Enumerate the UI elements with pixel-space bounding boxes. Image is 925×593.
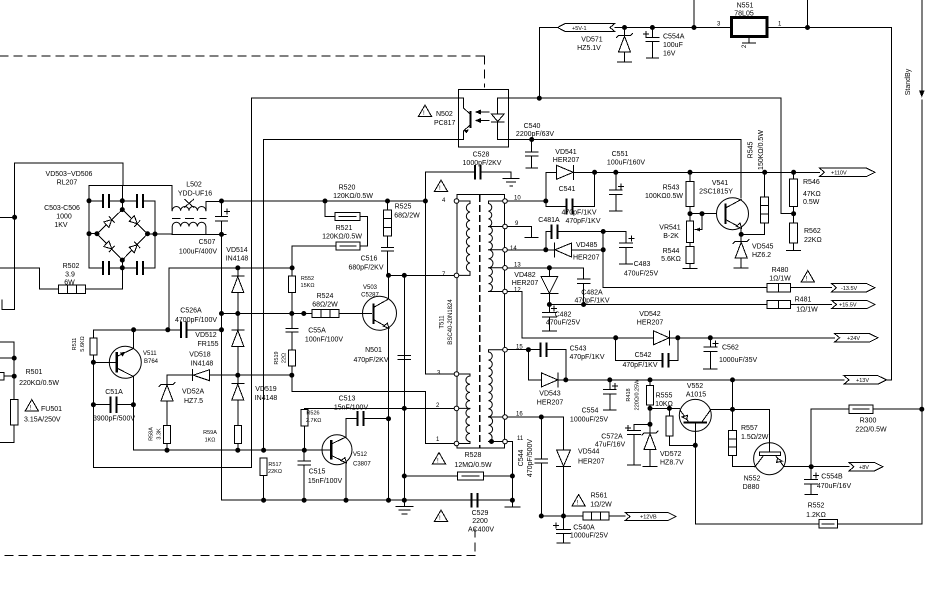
svg-text:1Ω/2W: 1Ω/2W: [590, 502, 612, 509]
svg-text:1.2KΩ: 1.2KΩ: [806, 512, 826, 519]
svg-text:470pF/1KV: 470pF/1KV: [565, 218, 600, 225]
label VD542: [637, 311, 664, 327]
capacitor C505 (bottom-left): [102, 261, 110, 275]
node base rail: [165, 448, 169, 452]
label C554: [570, 408, 608, 424]
wire pin12 to +24V rail: [507, 292, 834, 338]
svg-text:3.9: 3.9: [65, 272, 75, 279]
resistor R525: [387, 201, 389, 210]
diode VD518: [193, 370, 210, 381]
label R557: [741, 425, 769, 441]
transformer T511 secondary lower winding: [489, 350, 503, 442]
resistor R562: [790, 223, 798, 243]
label C51A: [93, 389, 135, 423]
node R501: [12, 356, 16, 360]
svg-text:C540: C540: [524, 123, 541, 130]
label R502 value: [63, 263, 80, 287]
svg-text:VD544: VD544: [578, 449, 600, 456]
wire hot ground rail: [222, 499, 513, 501]
capacitor C55A: [286, 314, 298, 351]
wire opto lower left: [264, 139, 459, 450]
wire choke bottom to C507: [172, 201, 226, 234]
diode VD485: [555, 243, 604, 257]
potentiometer VR541: [687, 221, 694, 243]
label R528: [454, 452, 492, 469]
svg-text:PC817: PC817: [434, 120, 456, 127]
svg-text:IN4148: IN4148: [226, 256, 249, 263]
capacitor C483 electrolytic: [620, 232, 635, 265]
svg-text:R481: R481: [795, 297, 812, 304]
wire emitter to R545: [741, 223, 765, 235]
svg-text:R519: R519: [274, 351, 280, 364]
svg-text:220KΩ/0.5W: 220KΩ/0.5W: [19, 380, 59, 387]
wire AC line 1 stub: [0, 163, 123, 310]
node +15.5 rail: [547, 303, 551, 307]
svg-text:22KΩ: 22KΩ: [804, 237, 822, 244]
svg-text:C507: C507: [199, 239, 216, 246]
svg-text:C544: C544: [518, 450, 525, 467]
label C542: [622, 352, 657, 369]
node VD543 out: [564, 378, 568, 382]
svg-text:YDD-UF16: YDD-UF16: [178, 191, 212, 198]
label R480: [769, 267, 791, 283]
wire V541 base: [690, 213, 717, 215]
node pin11 vertical: [510, 474, 514, 478]
label C529: [468, 510, 494, 534]
wire pin11 vertical: [505, 442, 520, 508]
ground hot: [396, 507, 413, 514]
label VD571: [577, 37, 603, 53]
svg-text:-13.5V: -13.5V: [841, 286, 858, 292]
svg-text:T511: T511: [440, 315, 446, 329]
arrow V511 emitter: [120, 352, 126, 357]
arrow V552 emitter: [682, 415, 687, 419]
capacitor C481A: [546, 231, 626, 250]
svg-text:R528: R528: [465, 452, 482, 459]
svg-text:47KΩ: 47KΩ: [803, 191, 821, 198]
wire V511 collector rail: [93, 329, 221, 331]
label C554A: [663, 34, 685, 58]
capacitor C554A: [644, 28, 660, 59]
svg-text:C515: C515: [309, 469, 326, 476]
svg-text:10KΩ: 10KΩ: [655, 401, 673, 408]
svg-text:4700pF/100V: 4700pF/100V: [175, 317, 217, 324]
capacitor C51A: [93, 362, 133, 467]
wire N552 base: [733, 409, 770, 451]
svg-text:C542: C542: [635, 352, 652, 359]
transistor N552: [754, 443, 786, 475]
transformer T511 primary lower winding: [459, 374, 470, 444]
node R546 bottom: [792, 212, 796, 216]
svg-text:StandBy: StandBy: [905, 68, 912, 95]
transistor V541: [717, 198, 749, 230]
label VD52A: [182, 389, 205, 406]
svg-text:IN4148: IN4148: [191, 361, 214, 368]
wire -13.5V rail: [603, 250, 831, 288]
label R501: [19, 369, 59, 387]
transformer T511 box: [457, 195, 504, 448]
wire R300 rail: [811, 409, 922, 467]
warning triangle transformer top: [435, 180, 448, 191]
svg-text:C554A: C554A: [663, 34, 685, 41]
resistor R546: [790, 179, 798, 207]
node V541 emitter: [739, 232, 743, 236]
node pin15: [526, 348, 530, 352]
label C516: [348, 256, 383, 272]
wire bridge top edge to choke: [89, 186, 172, 211]
label R561: [590, 493, 612, 509]
resistor R418: [647, 386, 654, 406]
svg-text:1000pF/2KV: 1000pF/2KV: [463, 160, 502, 167]
node pin16 wire: [539, 415, 543, 419]
node R517 bottom: [262, 498, 266, 502]
svg-text:C3807: C3807: [353, 462, 371, 468]
resistor R517: [260, 458, 267, 476]
svg-text:3.3K: 3.3K: [157, 428, 163, 440]
svg-text:HER207: HER207: [637, 320, 664, 327]
diode VD514: [232, 268, 244, 314]
svg-text:R552: R552: [808, 503, 825, 510]
svg-text:470uF/25V: 470uF/25V: [546, 320, 581, 327]
diode VD512: [232, 314, 244, 376]
resistor R552 (1.2K): [819, 520, 838, 528]
label R59A: [203, 430, 217, 444]
svg-text:680pF/2KV: 680pF/2KV: [348, 265, 383, 272]
N551 pin labels: [717, 22, 782, 49]
svg-text:C483: C483: [634, 261, 651, 268]
capacitor C529: [471, 493, 479, 508]
wire AC line 2 to R502: [0, 268, 122, 289]
svg-text:V512: V512: [353, 452, 368, 458]
svg-text:47uF/16V: 47uF/16V: [595, 442, 626, 449]
dashed isolation boundary top: [0, 56, 484, 87]
svg-text:VD519: VD519: [255, 386, 277, 393]
svg-text:+15.5V: +15.5V: [839, 303, 857, 309]
net flag +15.5V: [832, 300, 876, 308]
label T511 rotated: [440, 299, 455, 345]
transformer T511 secondary upper winding: [489, 201, 503, 292]
arrow V541 emitter: [736, 223, 741, 228]
svg-text:VD571: VD571: [581, 37, 603, 44]
label R552 15K: [301, 276, 315, 289]
node +5V rail: [623, 26, 627, 30]
svg-text:15nF/100V: 15nF/100V: [308, 478, 343, 485]
capacitor C515: [298, 450, 311, 500]
node C481A right: [601, 230, 605, 234]
svg-text:R562: R562: [804, 228, 821, 235]
svg-text:VD512: VD512: [195, 332, 217, 339]
wire StandBy line with arrow: [921, 0, 923, 524]
resistor R502: [59, 285, 86, 293]
label C55A: [305, 328, 343, 344]
svg-text:+8V: +8V: [859, 465, 869, 471]
resistor R557: [729, 431, 737, 456]
node +110V rail: [593, 170, 597, 174]
wire pin13: [507, 267, 583, 269]
svg-text:470pF/1KV: 470pF/1KV: [569, 354, 604, 361]
node VD514 rail: [236, 266, 240, 270]
wire +110V rail: [595, 171, 820, 173]
svg-text:FR155: FR155: [197, 341, 218, 348]
wire ground vertical: [403, 275, 405, 506]
svg-text:470pF/1KV: 470pF/1KV: [622, 362, 657, 369]
svg-text:1000uF/25V: 1000uF/25V: [570, 417, 608, 424]
resistor R519: [288, 350, 295, 366]
node C507 top: [220, 199, 224, 203]
capacitor C541: [546, 172, 595, 206]
node R520 top: [323, 199, 327, 203]
svg-text:68Ω/2W: 68Ω/2W: [312, 302, 338, 309]
wire opto upper left: [251, 97, 458, 99]
label N551: [734, 3, 754, 18]
capacitor C526A: [180, 322, 188, 339]
svg-text:100uF/160V: 100uF/160V: [607, 160, 645, 167]
optocoupler N502 phototransistor: [458, 98, 470, 139]
resistor R561: [583, 512, 609, 520]
label V552: [686, 383, 706, 399]
svg-text:VD52A: VD52A: [182, 389, 205, 396]
diode VD505 (bottom-left arm): [104, 241, 115, 252]
resistor R59A: [234, 426, 241, 444]
resistor R521: [292, 246, 336, 268]
wire +5V riser: [539, 28, 557, 99]
warning triangle R528: [433, 453, 446, 464]
svg-text:N552: N552: [744, 476, 761, 483]
wire left lower stubs: [0, 342, 14, 443]
svg-text:R543: R543: [663, 185, 680, 192]
svg-text:22Ω/0.5W: 22Ω/0.5W: [855, 427, 887, 434]
svg-text:HER207: HER207: [578, 459, 605, 466]
svg-text:120KΩ/0.5W: 120KΩ/0.5W: [333, 193, 373, 200]
node pin14: [544, 248, 548, 252]
wire pin2: [304, 408, 454, 409]
label C540A: [570, 525, 608, 540]
label R481: [795, 297, 819, 314]
optocoupler N502 LED: [491, 98, 508, 139]
node VD512 lower rail: [236, 373, 240, 377]
label VD512: [195, 332, 218, 348]
svg-text:+110V: +110V: [831, 171, 847, 177]
capacitor C544: [535, 417, 548, 516]
label R526: [306, 411, 321, 425]
label VD541: [553, 149, 580, 164]
resistor R511: [90, 338, 97, 355]
wire collector riser: [732, 380, 734, 431]
wire opto top right to feedback: [508, 98, 793, 214]
pin number labels: [436, 196, 524, 444]
wire pin9 stub: [507, 227, 538, 238]
svg-text:C5287: C5287: [361, 293, 379, 299]
label R544: [661, 248, 681, 263]
svg-text:C51A: C51A: [105, 389, 123, 396]
svg-text:5.6KΩ: 5.6KΩ: [661, 256, 681, 263]
svg-text:120KΩ/0.5W: 120KΩ/0.5W: [322, 234, 362, 241]
svg-text:1000uF/35V: 1000uF/35V: [719, 357, 757, 364]
svg-text:C543: C543: [570, 346, 587, 353]
label R525: [394, 204, 420, 220]
svg-text:1KV: 1KV: [54, 222, 68, 229]
capacitor C528 and ground: [425, 172, 511, 178]
svg-text:220Ω/0.25W: 220Ω/0.25W: [635, 379, 641, 411]
svg-text:HER207: HER207: [512, 280, 539, 287]
pin circles left: [454, 199, 459, 446]
bridge rectifier VD503~VD506 box: [89, 186, 155, 268]
node VD485 out: [601, 248, 605, 252]
capacitor C540A electrolytic: [554, 516, 571, 543]
svg-text:R480: R480: [772, 267, 789, 274]
capacitor C572A electrolytic: [626, 424, 651, 465]
svg-text:A1015: A1015: [686, 392, 706, 399]
label C482: [546, 312, 581, 327]
node V511 base: [91, 360, 95, 364]
svg-text:2.7KΩ: 2.7KΩ: [306, 418, 321, 424]
node +12VB line: [539, 514, 543, 518]
node V503 collector: [387, 273, 391, 277]
diode VD541: [546, 165, 595, 179]
svg-text:470pF/1KV: 470pF/1KV: [561, 210, 596, 217]
N551 ground: [743, 37, 756, 43]
resistor R481: [767, 300, 791, 308]
node +24V rail: [614, 336, 618, 340]
resistor R501 (cut off at edge): [0, 372, 4, 379]
svg-text:VD542: VD542: [639, 311, 661, 318]
label VD545: [752, 244, 774, 260]
wire snubber vertical x425: [425, 172, 454, 374]
net flag +12VB: [625, 512, 676, 520]
svg-text:C562: C562: [722, 345, 739, 352]
node base tap: [700, 212, 704, 216]
arrow N552 emitter: [777, 458, 783, 462]
label VD482: [512, 272, 539, 287]
capacitor C554B electrolytic: [805, 467, 819, 495]
wire VD514 upper rail: [169, 268, 292, 330]
svg-text:100uF: 100uF: [663, 42, 683, 49]
svg-text:14: 14: [510, 246, 517, 252]
zener VD52A: [159, 375, 175, 425]
label R511 rotated: [72, 336, 86, 351]
diode VD542: [654, 331, 670, 345]
svg-text:VD482: VD482: [514, 272, 536, 279]
node R543 bottom: [688, 212, 692, 216]
svg-text:B764: B764: [144, 359, 159, 365]
capacitor C482 electrolytic: [543, 305, 557, 332]
capacitor C504 (top-right): [136, 194, 144, 208]
wire pin1 loop: [292, 375, 454, 443]
resistor R480: [767, 284, 791, 292]
svg-text:C554B: C554B: [821, 474, 843, 481]
label R521: [322, 225, 362, 241]
svg-text:R524: R524: [317, 293, 334, 300]
svg-text:1Ω/1W: 1Ω/1W: [796, 307, 818, 314]
resistor R520: [325, 201, 368, 246]
svg-text:R557: R557: [741, 425, 758, 432]
svg-text:C554: C554: [582, 408, 599, 415]
svg-text:150KΩ/0.5W: 150KΩ/0.5W: [758, 130, 765, 170]
wire +5V rail: [615, 0, 892, 380]
svg-text:+5V-1: +5V-1: [572, 26, 587, 32]
svg-text:AC400V: AC400V: [468, 527, 494, 534]
wire pin16: [507, 416, 563, 418]
capacitor C554 electrolytic: [604, 380, 618, 410]
wire opto bottom right / C540: [508, 140, 741, 199]
node B+ pin4: [423, 199, 427, 203]
svg-text:V511: V511: [143, 351, 157, 357]
transistor V503: [363, 296, 397, 330]
capacitor C551 electrolytic: [610, 172, 624, 211]
svg-text:R517: R517: [268, 462, 281, 468]
node R418 bottom: [648, 406, 652, 410]
wire +15.5V rail: [549, 304, 831, 306]
label VR541: [659, 225, 681, 241]
regulator N551: [731, 18, 766, 37]
wire +12VB line: [541, 515, 625, 517]
svg-text:11: 11: [517, 436, 524, 442]
svg-text:16V: 16V: [663, 51, 676, 58]
svg-text:2200pF/63V: 2200pF/63V: [516, 131, 554, 138]
label C554B: [817, 474, 852, 491]
diode VD519: [232, 375, 244, 425]
label C541: [559, 186, 597, 217]
svg-text:VD485: VD485: [576, 242, 598, 249]
node C513 right: [387, 417, 391, 421]
node R519 bottom: [290, 373, 294, 377]
warning triangle C529: [435, 510, 448, 521]
dashed isolation boundary bottom: [0, 529, 475, 556]
label R520: [333, 185, 373, 201]
svg-text:1.5Ω/2W: 1.5Ω/2W: [741, 434, 769, 441]
label V503: [361, 285, 379, 299]
svg-text:C481A: C481A: [538, 217, 560, 224]
svg-text:C572A: C572A: [601, 434, 623, 441]
zener VD572: [642, 408, 658, 466]
svg-text:4: 4: [442, 198, 446, 204]
wire B+ rail: [222, 200, 426, 202]
svg-text:HZ8.7V: HZ8.7V: [660, 460, 684, 467]
svg-text:C528: C528: [473, 152, 490, 159]
capacitor C516: [382, 247, 394, 275]
warning triangle N502: [419, 105, 432, 116]
svg-text:R418: R418: [626, 388, 632, 401]
svg-text:N501: N501: [365, 347, 382, 354]
label V511: [143, 351, 159, 365]
resistor R58A: [164, 426, 171, 444]
warning triangle R561: [572, 495, 585, 506]
svg-text:22KΩ: 22KΩ: [268, 469, 282, 475]
resistor R544: [686, 247, 694, 264]
diode VD543: [528, 350, 565, 387]
label R562: [804, 228, 822, 244]
svg-text:+13V: +13V: [856, 378, 869, 384]
svg-text:5.6KΩ: 5.6KΩ: [80, 336, 86, 351]
net flag +5V-1: [558, 23, 616, 31]
diode VD482: [541, 268, 558, 305]
svg-text:3: 3: [717, 22, 721, 28]
transformer T511 primary upper winding: [459, 201, 470, 275]
svg-text:78L05: 78L05: [734, 11, 754, 18]
warning triangle R480: [801, 271, 814, 282]
label C483: [624, 261, 659, 278]
svg-text:+12VB: +12VB: [640, 515, 657, 521]
zener VD571: [617, 28, 633, 63]
svg-text:R555: R555: [656, 393, 673, 400]
label R300: [855, 418, 887, 434]
svg-text:C55A: C55A: [308, 328, 326, 335]
svg-text:100KΩ0.5W: 100KΩ0.5W: [645, 193, 683, 200]
svg-text:R59A: R59A: [203, 430, 217, 436]
wire C507 minus vertical: [221, 234, 223, 500]
svg-text:HER207: HER207: [553, 157, 580, 164]
svg-text:HZ5.1V: HZ5.1V: [577, 45, 601, 52]
